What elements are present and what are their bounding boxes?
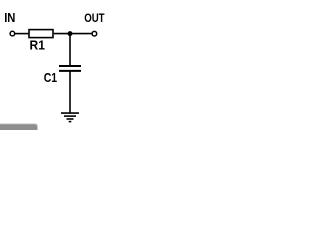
svg-text:IN: IN: [4, 11, 15, 25]
svg-text:R1: R1: [30, 39, 45, 53]
svg-text:OUT: OUT: [84, 11, 105, 25]
svg-text:C1: C1: [44, 71, 57, 85]
